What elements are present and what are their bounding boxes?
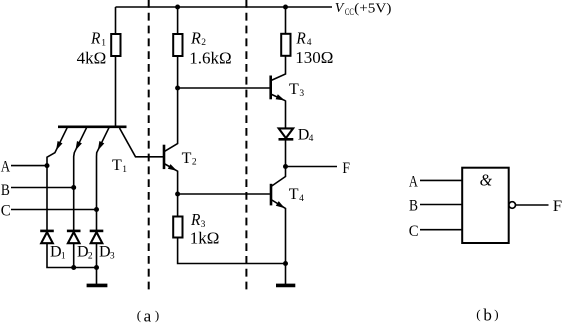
svg-text:D: D (77, 244, 89, 261)
svg-text:D: D (99, 244, 111, 261)
svg-text:(: ( (137, 307, 141, 322)
svg-text:1kΩ: 1kΩ (190, 229, 220, 248)
svg-text:1: 1 (61, 251, 66, 261)
svg-text:4: 4 (309, 134, 314, 144)
svg-text:A: A (409, 174, 418, 191)
svg-text:2: 2 (192, 158, 197, 168)
svg-text:B: B (409, 197, 418, 214)
svg-text:F: F (342, 160, 350, 177)
svg-text:4: 4 (299, 194, 304, 204)
svg-text:1: 1 (101, 38, 106, 48)
svg-text:(+5V): (+5V) (354, 1, 392, 16)
svg-text:3: 3 (299, 89, 304, 99)
svg-text:T: T (289, 81, 299, 98)
svg-text:2: 2 (88, 251, 93, 261)
svg-text:1: 1 (122, 165, 127, 175)
svg-text:(: ( (476, 307, 480, 322)
svg-text:b: b (483, 306, 492, 323)
svg-text:C: C (409, 223, 419, 240)
svg-text:R: R (190, 29, 201, 48)
svg-text:): ) (494, 307, 498, 322)
svg-text:V: V (335, 1, 345, 16)
svg-text:R: R (190, 210, 201, 229)
svg-text:T: T (289, 186, 299, 203)
svg-text:T: T (182, 150, 192, 167)
svg-text:130Ω: 130Ω (295, 48, 333, 67)
svg-text:): ) (155, 307, 159, 322)
svg-text:1.6kΩ: 1.6kΩ (189, 49, 231, 68)
svg-text:A: A (1, 158, 11, 175)
svg-text:D: D (50, 244, 62, 261)
svg-text:CC: CC (345, 7, 354, 18)
svg-text:R: R (295, 28, 306, 47)
svg-text:3: 3 (110, 251, 115, 261)
svg-text:B: B (1, 182, 10, 199)
svg-text:F: F (553, 198, 562, 215)
svg-text:R: R (90, 29, 101, 48)
svg-text:&: & (480, 170, 493, 189)
svg-text:T: T (112, 157, 122, 174)
svg-text:C: C (1, 203, 11, 220)
svg-text:4kΩ: 4kΩ (77, 48, 107, 67)
svg-text:a: a (144, 307, 152, 323)
svg-text:2: 2 (201, 38, 206, 48)
svg-text:4: 4 (307, 38, 312, 48)
